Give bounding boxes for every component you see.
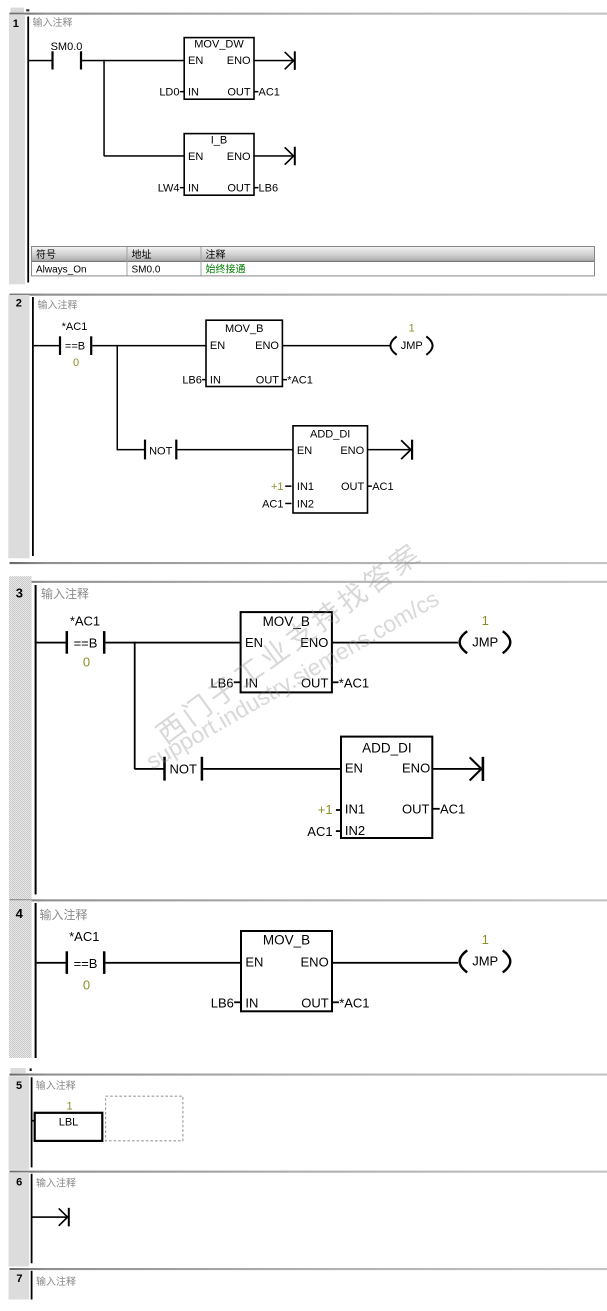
svg-text:MOV_DW: MOV_DW xyxy=(194,38,244,50)
svg-text:MOV_B: MOV_B xyxy=(263,933,310,948)
svg-text:JMP: JMP xyxy=(472,953,498,968)
svg-text:LW4: LW4 xyxy=(158,182,180,194)
svg-text:注释: 注释 xyxy=(206,248,226,261)
svg-text:输入注释: 输入注释 xyxy=(36,1079,76,1092)
svg-text:==B: ==B xyxy=(74,956,98,971)
svg-text:IN2: IN2 xyxy=(345,823,365,838)
svg-text:OUT: OUT xyxy=(402,801,430,816)
svg-text:ADD_DI: ADD_DI xyxy=(362,741,412,756)
svg-text:EN: EN xyxy=(188,151,203,163)
svg-text:输入注释: 输入注释 xyxy=(36,1177,76,1190)
svg-text:输入注释: 输入注释 xyxy=(33,16,73,29)
svg-text:ENO: ENO xyxy=(227,151,251,163)
svg-text:OUT: OUT xyxy=(227,86,251,98)
svg-text:+1: +1 xyxy=(271,481,284,493)
svg-text:IN1: IN1 xyxy=(345,801,365,816)
svg-text:SM0.0: SM0.0 xyxy=(132,265,161,276)
svg-text:AC1: AC1 xyxy=(262,498,283,510)
svg-text:1: 1 xyxy=(66,1101,72,1113)
svg-text:AC1: AC1 xyxy=(440,801,465,816)
svg-text:I_B: I_B xyxy=(211,134,228,146)
svg-text:输入注释: 输入注释 xyxy=(40,907,88,922)
svg-text:EN: EN xyxy=(297,445,312,457)
svg-text:OUT: OUT xyxy=(341,481,365,493)
svg-text:5: 5 xyxy=(16,1080,22,1092)
svg-text:地址: 地址 xyxy=(132,248,152,261)
svg-text:始终接通: 始终接通 xyxy=(206,263,246,276)
svg-text:SM0.0: SM0.0 xyxy=(51,41,83,53)
svg-text:Always_On: Always_On xyxy=(36,265,87,276)
svg-text:输入注释: 输入注释 xyxy=(36,1275,76,1288)
svg-text:3: 3 xyxy=(16,585,23,600)
svg-text:+1: +1 xyxy=(318,802,333,817)
svg-text:LB6: LB6 xyxy=(211,996,234,1011)
svg-text:IN2: IN2 xyxy=(297,498,314,510)
svg-text:ENO: ENO xyxy=(301,955,329,970)
svg-text:4: 4 xyxy=(16,906,24,921)
svg-text:EN: EN xyxy=(210,340,225,352)
svg-text:ENO: ENO xyxy=(402,761,430,776)
svg-text:LB6: LB6 xyxy=(182,374,202,386)
svg-text:LB6: LB6 xyxy=(259,182,279,194)
svg-text:ENO: ENO xyxy=(340,445,364,457)
svg-text:*AC1: *AC1 xyxy=(287,374,313,386)
svg-text:IN: IN xyxy=(210,374,221,386)
svg-text:*AC1: *AC1 xyxy=(70,613,100,628)
svg-text:ENO: ENO xyxy=(227,55,251,67)
svg-text:1: 1 xyxy=(13,18,19,30)
svg-text:IN: IN xyxy=(188,182,199,194)
svg-text:LD0: LD0 xyxy=(159,86,179,98)
svg-text:0: 0 xyxy=(83,655,90,670)
svg-text:输入注释: 输入注释 xyxy=(38,299,78,312)
svg-text:AC1: AC1 xyxy=(372,481,393,493)
svg-text:==B: ==B xyxy=(74,636,98,651)
svg-text:2: 2 xyxy=(16,298,22,310)
svg-text:AC1: AC1 xyxy=(259,86,280,98)
svg-text:7: 7 xyxy=(16,1273,22,1285)
svg-text:EN: EN xyxy=(188,55,203,67)
svg-text:1: 1 xyxy=(409,322,415,334)
svg-text:ENO: ENO xyxy=(255,340,279,352)
svg-text:IN: IN xyxy=(188,86,199,98)
svg-text:ADD_DI: ADD_DI xyxy=(310,429,350,441)
svg-text:6: 6 xyxy=(16,1177,22,1189)
svg-text:AC1: AC1 xyxy=(307,824,332,839)
svg-text:OUT: OUT xyxy=(227,182,251,194)
svg-text:JMP: JMP xyxy=(401,340,423,352)
svg-text:IN: IN xyxy=(245,996,258,1011)
svg-text:LBL: LBL xyxy=(59,1117,79,1129)
svg-text:*AC1: *AC1 xyxy=(339,676,369,691)
svg-text:*AC1: *AC1 xyxy=(339,996,369,1011)
svg-text:1: 1 xyxy=(482,613,489,628)
svg-text:NOT: NOT xyxy=(169,762,197,777)
svg-text:*AC1: *AC1 xyxy=(69,929,99,944)
svg-text:OUT: OUT xyxy=(301,996,329,1011)
svg-text:0: 0 xyxy=(73,357,79,369)
svg-text:EN: EN xyxy=(345,761,363,776)
svg-text:JMP: JMP xyxy=(472,634,498,649)
svg-text:1: 1 xyxy=(482,932,489,947)
svg-text:EN: EN xyxy=(245,955,263,970)
svg-text:输入注释: 输入注释 xyxy=(41,586,89,601)
svg-text:IN1: IN1 xyxy=(297,481,314,493)
svg-text:符号: 符号 xyxy=(36,248,56,261)
svg-text:==B: ==B xyxy=(65,340,85,352)
svg-text:MOV_B: MOV_B xyxy=(225,323,264,335)
svg-text:OUT: OUT xyxy=(256,374,280,386)
svg-text:NOT: NOT xyxy=(149,445,173,457)
svg-text:0: 0 xyxy=(83,978,90,993)
svg-text:*AC1: *AC1 xyxy=(62,321,88,333)
